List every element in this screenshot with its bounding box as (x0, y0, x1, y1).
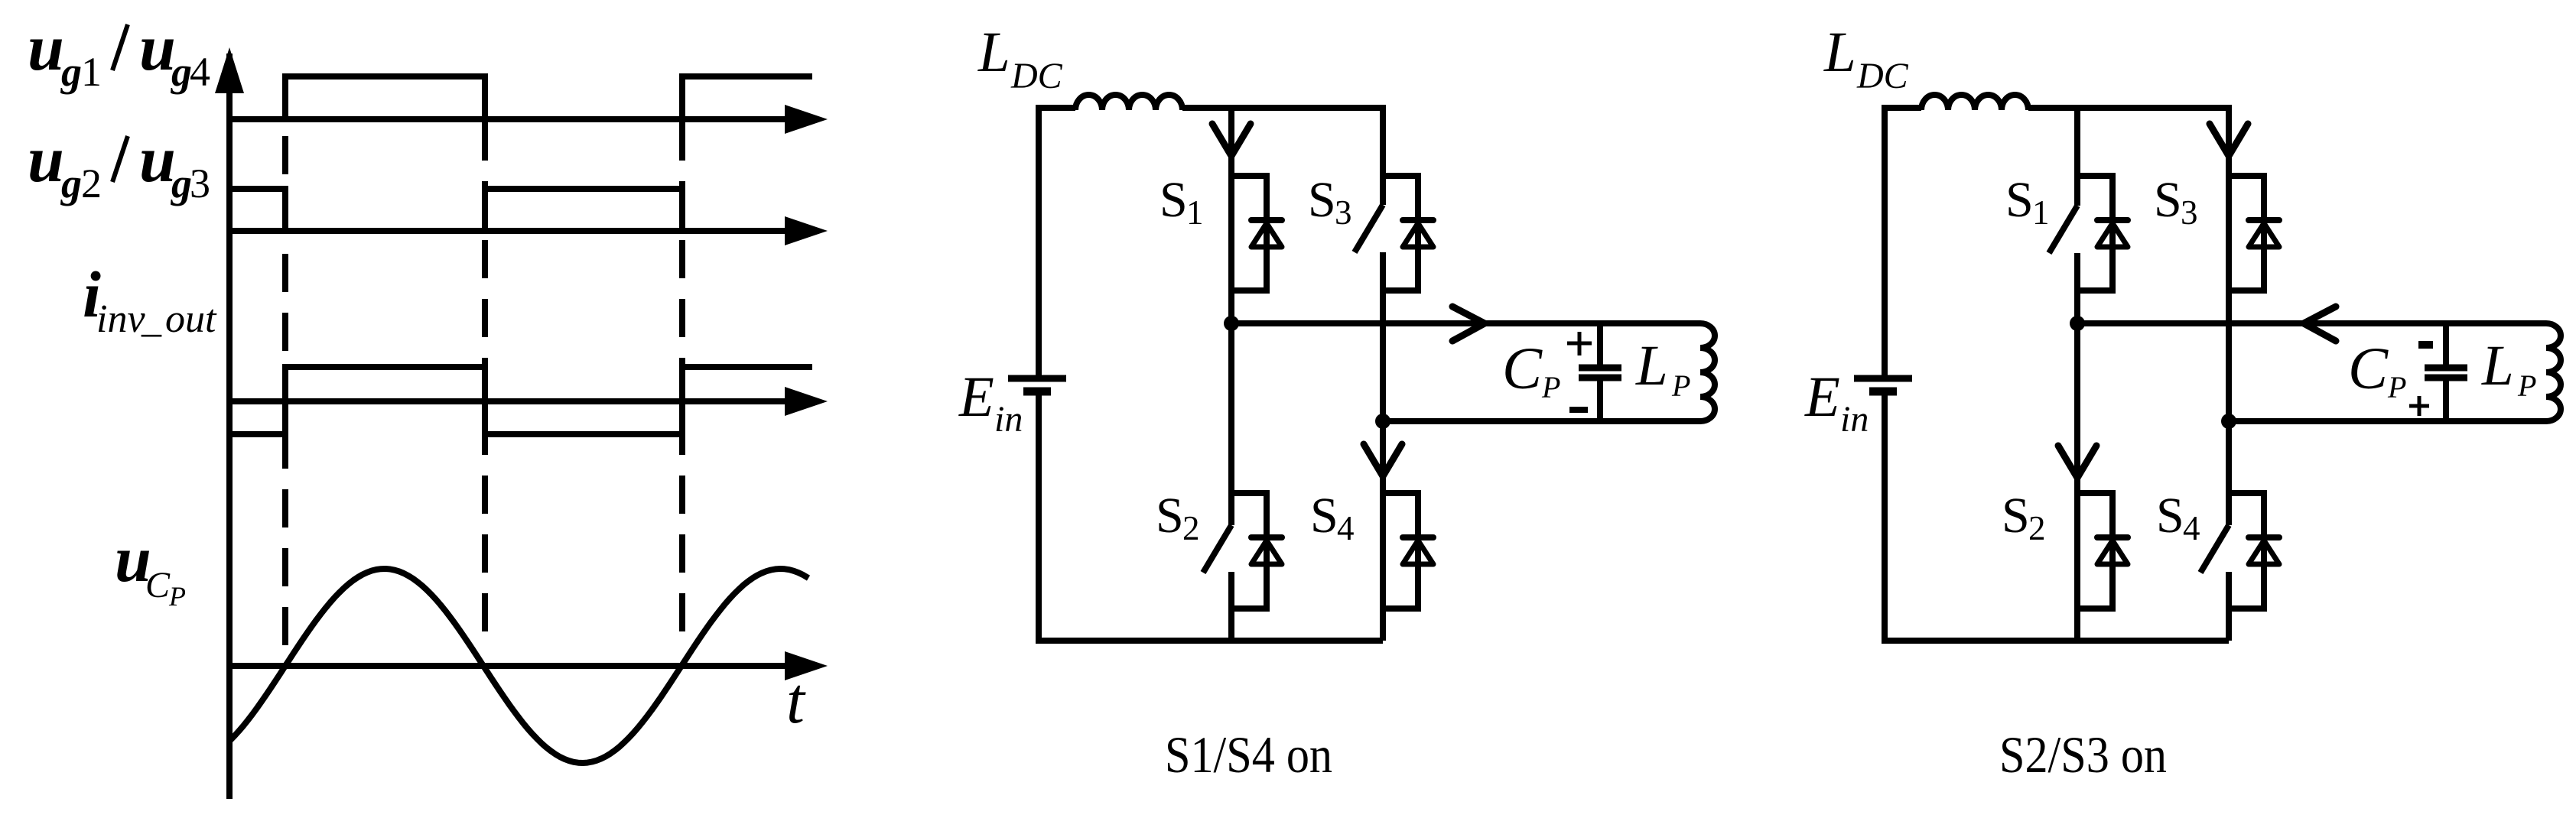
svg-text:4: 4 (190, 49, 210, 95)
svg-text:1: 1 (81, 49, 102, 95)
svg-text:2: 2 (2028, 509, 2046, 547)
svg-text:g: g (171, 49, 192, 95)
svg-text:2: 2 (81, 161, 102, 206)
svg-text:3: 3 (2181, 193, 2198, 232)
svg-text:S: S (2002, 488, 2030, 544)
svg-text:3: 3 (1335, 193, 1352, 232)
svg-text:g: g (60, 49, 82, 95)
svg-text:3: 3 (190, 161, 210, 206)
svg-text:P: P (168, 581, 186, 612)
svg-text:1: 1 (2032, 193, 2050, 232)
svg-text:L: L (1823, 21, 1856, 84)
svg-text:in: in (994, 399, 1023, 440)
svg-text:2: 2 (1182, 509, 1200, 547)
svg-text:S: S (1156, 488, 1184, 544)
svg-text:P: P (1541, 370, 1560, 404)
svg-text:C: C (145, 565, 171, 605)
svg-text:E: E (1804, 365, 1840, 429)
svg-text:L: L (1635, 334, 1668, 398)
svg-text:C: C (1502, 335, 1543, 401)
svg-text:1: 1 (1186, 193, 1204, 232)
svg-text:S1/S4 on: S1/S4 on (1165, 725, 1332, 784)
svg-text:S: S (1310, 488, 1338, 544)
svg-text:u: u (28, 122, 64, 196)
svg-text:u: u (139, 11, 176, 84)
svg-text:out: out (165, 297, 217, 341)
svg-text:S: S (2154, 172, 2182, 228)
svg-text:4: 4 (1337, 509, 1355, 547)
svg-text:t: t (786, 664, 806, 737)
svg-text:u: u (28, 11, 64, 84)
svg-text:P: P (2517, 368, 2536, 403)
svg-text:E: E (958, 365, 994, 429)
svg-text:S2/S3 on: S2/S3 on (1999, 725, 2167, 784)
svg-text:4: 4 (2183, 509, 2200, 547)
svg-text:in: in (1840, 399, 1869, 440)
svg-text:g: g (171, 161, 192, 206)
svg-text:S: S (1160, 172, 1188, 228)
svg-text:L: L (2481, 334, 2514, 398)
svg-text:DC: DC (1856, 56, 1909, 96)
svg-text:u: u (139, 122, 176, 196)
svg-text:S: S (1308, 172, 1336, 228)
svg-text:DC: DC (1010, 56, 1063, 96)
svg-text:g: g (60, 161, 82, 206)
svg-text:C: C (2348, 335, 2389, 401)
svg-text:P: P (1671, 368, 1690, 403)
svg-text:S: S (2156, 488, 2184, 544)
svg-text:P: P (2387, 370, 2406, 404)
svg-text:L: L (977, 21, 1010, 84)
svg-text:_: _ (141, 297, 162, 341)
svg-text:S: S (2005, 172, 2034, 228)
svg-text:inv: inv (96, 297, 145, 341)
